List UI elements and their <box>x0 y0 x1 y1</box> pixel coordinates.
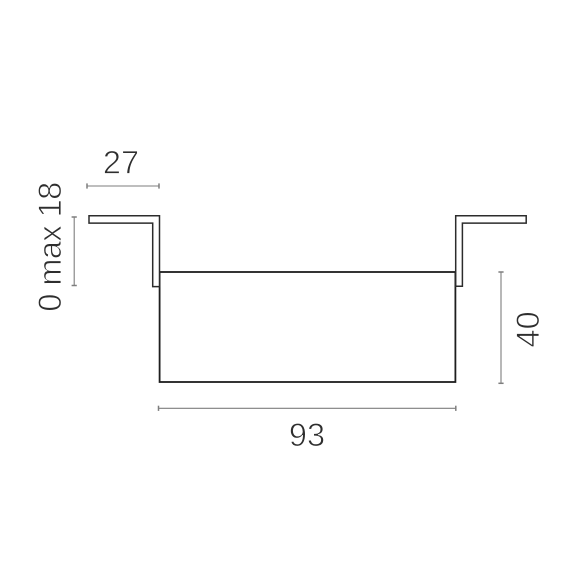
svg-text:27: 27 <box>103 144 139 180</box>
svg-text:40: 40 <box>510 311 546 347</box>
svg-text:93: 93 <box>289 417 325 453</box>
svg-text:0 max 18: 0 max 18 <box>32 182 68 311</box>
